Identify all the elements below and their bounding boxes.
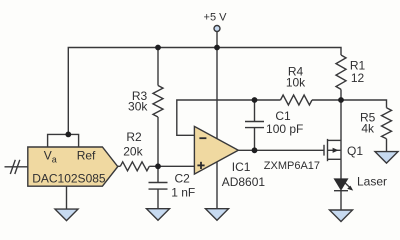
svg-text:R2: R2 <box>126 130 142 144</box>
svg-text:Laser: Laser <box>357 174 387 188</box>
svg-text:AD8601: AD8601 <box>222 175 266 189</box>
svg-text:4k: 4k <box>361 122 375 136</box>
svg-text:DAC102S085: DAC102S085 <box>32 172 106 186</box>
svg-text:12: 12 <box>351 71 365 85</box>
svg-text:ZXMP6A17: ZXMP6A17 <box>264 160 320 172</box>
svg-text:20k: 20k <box>123 145 143 159</box>
svg-text:Ref: Ref <box>77 148 96 162</box>
svg-text:100 pF: 100 pF <box>266 122 303 136</box>
svg-text:IC1: IC1 <box>232 160 251 174</box>
svg-text:C2: C2 <box>175 172 191 186</box>
svg-text:10k: 10k <box>286 76 306 90</box>
svg-text:30k: 30k <box>128 100 148 114</box>
svg-text:Q1: Q1 <box>347 144 363 158</box>
svg-text:+5 V: +5 V <box>204 12 228 24</box>
svg-text:1 nF: 1 nF <box>171 186 195 200</box>
svg-text:C1: C1 <box>275 109 291 123</box>
svg-text:R1: R1 <box>350 58 366 72</box>
